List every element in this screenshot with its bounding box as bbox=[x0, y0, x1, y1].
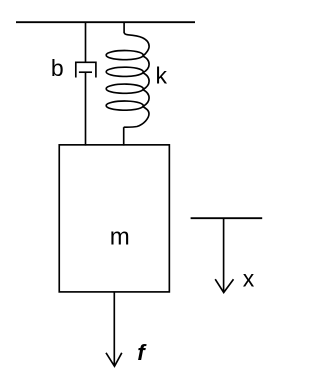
x arrow shaft bbox=[223, 218, 225, 292]
damper b cup bbox=[76, 62, 96, 77]
damper b piston bbox=[79, 71, 92, 73]
force arrow head bbox=[106, 353, 122, 367]
x arrow head bbox=[215, 279, 233, 292]
spring k coil bbox=[106, 32, 149, 127]
svg-text:k: k bbox=[156, 63, 168, 89]
wire damper upper rod bbox=[85, 22, 87, 62]
datum reference line bbox=[191, 217, 263, 219]
svg-text:m: m bbox=[110, 224, 130, 251]
wire ceiling line bbox=[16, 21, 195, 23]
wire spring bottom stub bbox=[123, 127, 125, 145]
force arrow shaft bbox=[113, 292, 115, 366]
wire spring top stub bbox=[123, 22, 125, 33]
wire damper lower rod bbox=[85, 72, 87, 145]
svg-text:b: b bbox=[51, 55, 64, 81]
mass m block bbox=[59, 145, 169, 292]
svg-text:x: x bbox=[243, 266, 255, 292]
